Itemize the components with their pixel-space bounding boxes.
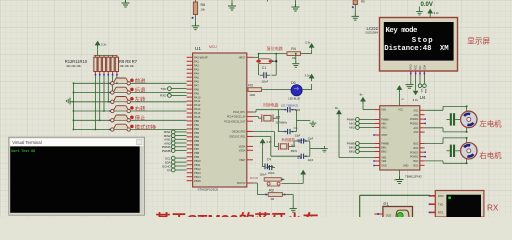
wire stub top xyxy=(267,0,269,2)
svg-text:PWMA: PWMA xyxy=(381,119,389,122)
capacitor M-left xyxy=(450,113,452,125)
svg-text:NRST: NRST xyxy=(239,56,246,59)
wire R2 to ground xyxy=(282,194,293,196)
svg-text:PWMA: PWMA xyxy=(347,118,355,122)
svg-text:VM1: VM1 xyxy=(381,109,387,112)
resistor R8b xyxy=(265,178,267,180)
svg-text:3.3v: 3.3v xyxy=(305,41,311,45)
svg-text:PA0-WKUP: PA0-WKUP xyxy=(194,55,208,59)
wire R4 to 3.3v xyxy=(301,53,312,55)
LCD2 bottom pins xyxy=(410,71,412,75)
resistor pack R12-R7 xyxy=(94,55,96,57)
button K1 xyxy=(109,83,110,84)
motor M-right xyxy=(461,143,477,159)
wire OSCOUT net xyxy=(253,136,271,138)
wire pullup column 6 xyxy=(116,76,118,84)
svg-text:VSSA: VSSA xyxy=(239,149,246,152)
svg-text:3.3v: 3.3v xyxy=(101,43,107,47)
svg-text:PB3: PB3 xyxy=(194,131,200,135)
svg-text:模式切换: 模式切换 xyxy=(135,123,157,131)
wire pullup column 5 xyxy=(112,76,114,93)
svg-text:MCU: MCU xyxy=(209,45,217,49)
wire PC14 net xyxy=(253,116,259,118)
ground under voltmeter xyxy=(419,7,421,10)
wire M-right feed bottom xyxy=(425,160,443,162)
svg-text:X2: X2 xyxy=(276,116,281,120)
power 3.3v boot xyxy=(301,171,305,177)
svg-text:PC15-OSC32_OUT: PC15-OSC32_OUT xyxy=(224,120,246,123)
svg-text:100nF: 100nF xyxy=(261,81,268,84)
wire key3 to MCU xyxy=(130,101,186,103)
wire X2 right xyxy=(273,117,278,119)
svg-text:AIN1: AIN1 xyxy=(349,122,355,126)
wire key1 to MCU xyxy=(130,82,186,84)
power 3.3v LED xyxy=(310,75,314,82)
wire key6 to MCU xyxy=(130,129,186,131)
svg-text:22pF: 22pF xyxy=(308,159,314,162)
LCD2 display xyxy=(380,18,458,72)
svg-text:Stop: Stop xyxy=(412,37,434,45)
svg-text:SDA: SDA xyxy=(423,64,426,69)
svg-text:SDA: SDA xyxy=(424,89,427,94)
svg-text:TXD: TXD xyxy=(160,87,167,91)
svg-text:AO1: AO1 xyxy=(414,109,419,112)
svg-text:AO2: AO2 xyxy=(414,127,419,130)
svg-text:U1: U1 xyxy=(195,46,201,51)
svg-text:R12R11R10: R12R11R10 xyxy=(65,59,88,64)
svg-text:Key mode: Key mode xyxy=(386,27,419,35)
svg-text:100R: 100R xyxy=(249,94,255,97)
svg-text:3.3v: 3.3v xyxy=(434,11,440,15)
wire M-right feed top xyxy=(425,143,443,145)
resistor R5 (cut at top) xyxy=(353,0,357,5)
svg-text:PB14: PB14 xyxy=(194,175,201,179)
svg-text:LCD2: LCD2 xyxy=(366,26,378,31)
svg-text:PA6: PA6 xyxy=(194,79,199,83)
terminal SDA under LCD xyxy=(423,76,425,84)
button RESET xyxy=(258,54,260,62)
capacitor C7 xyxy=(269,165,271,170)
svg-text:PA12: PA12 xyxy=(194,103,201,107)
svg-text:VCC: VCC xyxy=(398,109,403,112)
wire NRST net xyxy=(253,56,259,58)
svg-text:BO1: BO1 xyxy=(414,160,419,163)
svg-text:10k: 10k xyxy=(201,7,206,11)
svg-text:PC14-OSC32_IN: PC14-OSC32_IN xyxy=(227,116,246,119)
wire pullup column 1 xyxy=(94,76,96,130)
wire to LCD top xyxy=(429,16,431,18)
wire RXD long xyxy=(359,195,361,217)
svg-text:GND: GND xyxy=(381,165,387,168)
svg-text:BOOT0: BOOT0 xyxy=(250,177,259,180)
svg-text:10k 10k 10k: 10k 10k 10k xyxy=(119,64,134,68)
svg-text:PC13_RTC: PC13_RTC xyxy=(233,111,245,114)
svg-text:后退: 后退 xyxy=(135,86,146,94)
wire R5 to ground xyxy=(354,5,356,15)
svg-text:Virtual Terminal: Virtual Terminal xyxy=(12,140,42,145)
svg-text:GND: GND xyxy=(403,164,409,167)
svg-text:VDDA: VDDA xyxy=(239,146,246,149)
svg-text:VM3: VM3 xyxy=(381,160,387,163)
svg-text:时钟电路: 时钟电路 xyxy=(263,103,278,108)
svg-text:PWMB: PWMB xyxy=(162,149,171,153)
pin stub P1 xyxy=(374,213,383,215)
svg-text:PB8: PB8 xyxy=(194,151,200,155)
power 3.3v U4 xyxy=(397,86,401,93)
svg-text:AIN2: AIN2 xyxy=(381,127,387,130)
svg-text:PGND2: PGND2 xyxy=(410,156,419,159)
svg-text:前进: 前进 xyxy=(135,77,146,85)
ground node top B xyxy=(295,0,297,4)
svg-text:32.768kHz: 32.768kHz xyxy=(276,122,288,125)
power 3.3v key pullups xyxy=(96,42,100,50)
svg-text:R9 R8 R7: R9 R8 R7 xyxy=(119,59,138,64)
button BOOT xyxy=(267,182,270,185)
svg-text:R3: R3 xyxy=(248,83,252,87)
svg-text:BO1: BO1 xyxy=(414,164,419,167)
svg-text:DCD: DCD xyxy=(386,214,391,217)
svg-text:PB2: PB2 xyxy=(194,127,200,131)
svg-text:右转: 右转 xyxy=(135,104,146,112)
svg-text:PWMB: PWMB xyxy=(381,143,389,146)
svg-text:PA8: PA8 xyxy=(194,87,199,91)
svg-text:100nF: 100nF xyxy=(260,174,267,177)
wire LCD pin1 xyxy=(410,76,412,85)
ground sideways key bus xyxy=(67,98,74,105)
svg-text:显示屏: 显示屏 xyxy=(467,36,490,45)
ground X1 xyxy=(321,146,328,152)
op U1 MCU STM32F103C8 body xyxy=(193,53,247,187)
capacitor M-right xyxy=(450,145,452,157)
svg-text:PGND2: PGND2 xyxy=(410,151,419,154)
svg-text:PB6: PB6 xyxy=(194,143,200,147)
svg-text:VBAT: VBAT xyxy=(239,159,246,162)
svg-text:R2: R2 xyxy=(269,188,274,192)
wire caps to ground xyxy=(293,109,297,111)
terminal screen xyxy=(10,146,140,212)
key matrix wires xyxy=(73,82,110,84)
svg-text:8MHz: 8MHz xyxy=(291,150,298,153)
svg-text:OSCOUT_PD1: OSCOUT_PD1 xyxy=(229,136,246,139)
wire C2 C3 to ground xyxy=(306,140,310,142)
svg-text:LED-BLUE: LED-BLUE xyxy=(288,98,300,101)
svg-text:R5: R5 xyxy=(361,0,365,4)
svg-text:C4: C4 xyxy=(267,157,271,161)
svg-text:PWMB: PWMB xyxy=(347,142,355,146)
svg-text:PA1: PA1 xyxy=(194,59,199,63)
motor M-left xyxy=(461,111,477,127)
svg-text:OSCIN_PD0: OSCIN_PD0 xyxy=(232,131,246,134)
svg-text:GND: GND xyxy=(410,64,413,70)
svg-text:C6: C6 xyxy=(294,126,298,130)
svg-text:左电机: 左电机 xyxy=(479,120,502,129)
svg-text:AIN1: AIN1 xyxy=(381,123,387,126)
svg-text:0.0V: 0.0V xyxy=(421,2,433,8)
wire M-left feed bottom xyxy=(425,127,443,129)
svg-text:R4: R4 xyxy=(291,47,296,51)
svg-text:左转: 左转 xyxy=(135,95,146,103)
button K2 xyxy=(109,92,110,93)
ground R2 xyxy=(290,206,297,212)
wire LCD pin2 xyxy=(415,76,417,91)
button K5 xyxy=(109,120,110,121)
svg-text:RXD: RXD xyxy=(438,194,444,198)
svg-text:Uart Test OK: Uart Test OK xyxy=(11,149,35,153)
ground X2 xyxy=(310,121,317,127)
svg-text:PB5: PB5 xyxy=(194,139,200,143)
svg-text:OLED12864: OLED12864 xyxy=(365,32,378,34)
svg-text:RTS: RTS xyxy=(438,211,443,215)
power 3.3v X1 xyxy=(261,139,265,146)
U1 left pins xyxy=(187,56,193,58)
svg-text:系统晶振: 系统晶振 xyxy=(281,137,295,142)
svg-text:RXD: RXD xyxy=(160,94,167,98)
svg-text:PB9: PB9 xyxy=(194,155,200,159)
svg-text:PGND1: PGND1 xyxy=(410,118,419,121)
svg-text:TR: TR xyxy=(167,168,171,172)
button K6 xyxy=(109,129,110,130)
svg-text:3.3v: 3.3v xyxy=(266,140,272,144)
svg-text:PA5: PA5 xyxy=(194,75,199,79)
svg-text:R6: R6 xyxy=(201,3,206,7)
ground reset xyxy=(295,54,297,61)
svg-text:BIN1: BIN1 xyxy=(381,147,387,150)
svg-text:PGND1: PGND1 xyxy=(410,123,419,126)
svg-text:PA3: PA3 xyxy=(194,67,199,71)
ground arrow under LCD xyxy=(413,91,419,95)
svg-text:PB4: PB4 xyxy=(194,135,200,139)
resistor R6 xyxy=(195,0,197,2)
wire key5 to MCU xyxy=(130,119,186,121)
svg-text:PB15: PB15 xyxy=(194,179,201,183)
svg-text:PA15: PA15 xyxy=(194,115,201,119)
svg-text:U4: U4 xyxy=(420,95,426,100)
svg-text:TB6612FNG: TB6612FNG xyxy=(405,175,423,179)
svg-text:PB11: PB11 xyxy=(194,163,201,167)
power 3.3v reset xyxy=(310,44,314,50)
svg-text:PA13: PA13 xyxy=(194,107,201,111)
wire pullup bus xyxy=(97,50,99,56)
power 3.3v above LCD xyxy=(428,10,432,17)
svg-text:PA14: PA14 xyxy=(194,111,201,115)
svg-text:BIN2: BIN2 xyxy=(349,150,355,154)
svg-text:BO2: BO2 xyxy=(414,143,419,146)
svg-text:D0: D0 xyxy=(291,81,296,85)
wire C1 to NRST net xyxy=(275,54,277,76)
svg-text:P1: P1 xyxy=(383,201,389,206)
svg-text:AO2: AO2 xyxy=(414,131,419,134)
svg-text:BIN1: BIN1 xyxy=(349,146,355,150)
capacitor C5 xyxy=(253,111,256,113)
ground top-left xyxy=(122,0,130,7)
svg-text:右电机: 右电机 xyxy=(479,151,502,160)
RX module xyxy=(435,191,484,218)
wire R6 to ground xyxy=(195,15,197,25)
svg-text:复位电路: 复位电路 xyxy=(267,45,283,51)
svg-text:PA4: PA4 xyxy=(194,71,199,75)
svg-text:3.3v: 3.3v xyxy=(413,98,419,102)
wire BOOT0 xyxy=(253,182,257,184)
ground under R6 xyxy=(192,23,200,30)
wire pullup column 2 xyxy=(99,76,101,121)
svg-text:PB10: PB10 xyxy=(194,159,201,163)
button K4 xyxy=(109,110,110,111)
svg-text:PA7: PA7 xyxy=(194,83,199,87)
ground U4 xyxy=(399,170,401,177)
svg-text:3.3v: 3.3v xyxy=(305,74,311,78)
svg-text:PB0: PB0 xyxy=(194,119,200,123)
svg-text:PB13: PB13 xyxy=(194,171,201,175)
svg-text:PB12: PB12 xyxy=(194,167,201,171)
terminal SCL under LCD xyxy=(419,76,421,84)
svg-text:BOOT0: BOOT0 xyxy=(237,182,246,185)
svg-text:PA9: PA9 xyxy=(194,91,199,95)
svg-text:BIN2: BIN2 xyxy=(381,151,387,154)
ground sideways under LCD xyxy=(405,85,413,89)
svg-text:22pF: 22pF xyxy=(308,138,314,141)
wire M-left feed top xyxy=(425,109,443,111)
svg-text:(32.768KHZ): (32.768KHZ) xyxy=(281,103,298,107)
wire R3 to D0 xyxy=(262,89,292,91)
virtual terminal window xyxy=(9,137,145,215)
svg-text:BO2: BO2 xyxy=(414,147,419,150)
svg-text:100nF: 100nF xyxy=(268,172,275,175)
wire OSCIN net xyxy=(253,131,274,133)
button K3 xyxy=(109,101,110,102)
wire pullup column 4 xyxy=(107,76,109,102)
wire key4 to MCU xyxy=(130,110,186,112)
wire D0 to 3.3v xyxy=(302,89,311,91)
wire pullup column 3 xyxy=(103,76,105,111)
svg-text:PA2: PA2 xyxy=(194,63,199,67)
ground node top A xyxy=(231,0,233,3)
svg-text:PA11: PA11 xyxy=(194,99,201,103)
svg-text:PB7: PB7 xyxy=(194,147,200,151)
svg-text:PB1: PB1 xyxy=(194,123,200,127)
svg-text:C1: C1 xyxy=(262,66,266,70)
svg-text:停止: 停止 xyxy=(135,114,146,122)
svg-text:STM32F103C8: STM32F103C8 xyxy=(198,187,219,191)
svg-text:AIN2: AIN2 xyxy=(349,126,355,130)
svg-text:SCL: SCL xyxy=(419,64,422,69)
svg-text:AO1: AO1 xyxy=(414,114,419,117)
ground bus for keys xyxy=(72,83,74,129)
svg-text:RX: RX xyxy=(487,203,499,212)
op U4 TB6612FNG body xyxy=(380,106,420,170)
svg-text:PA10: PA10 xyxy=(194,95,201,99)
svg-text:TXD: TXD xyxy=(438,202,443,206)
svg-text:Distance:48 XM: Distance:48 XM xyxy=(384,45,449,53)
svg-text:VCC: VCC xyxy=(415,64,418,69)
svg-text:STBY: STBY xyxy=(381,134,388,137)
svg-text:10k 10k 10k: 10k 10k 10k xyxy=(66,64,81,68)
wire key2 to MCU xyxy=(130,92,186,94)
ground under R5 xyxy=(352,14,360,21)
